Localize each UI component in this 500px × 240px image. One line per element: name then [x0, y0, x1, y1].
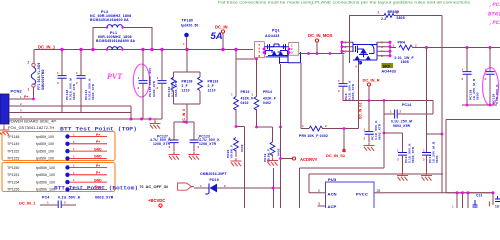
wire: rail drop to PC17 node: [426, 48, 428, 135]
svg-text:PVCC: PVCC: [356, 191, 368, 196]
capacitor PC17: [422, 134, 442, 173]
pin 3 ACP of PU3: [318, 202, 337, 209]
test point row TP1148: [7, 133, 107, 139]
mosfet PQ5 left pins: [341, 41, 354, 54]
wire: PF1 to PCN2 pin column: [33, 87, 35, 99]
svg-text:1U: 1U: [495, 205, 500, 209]
junction dot ACP drop: [383, 132, 386, 135]
capacitor PC6 on gate sense line: [338, 55, 348, 101]
junction dots right rail: [425, 46, 492, 49]
svg-text:5A: 5A: [211, 31, 223, 42]
test point TP180: [181, 19, 198, 50]
net label DC_IN_S1: [343, 149, 346, 152]
svg-text:1608: 1608: [401, 60, 409, 64]
svg-text:BT61: BT61: [488, 11, 500, 18]
svg-text:TP1153: TP1153: [7, 157, 19, 161]
net stub DC_IN: [215, 25, 228, 50]
capacitor PC14 horizontal: [384, 101, 433, 119]
svg-text:1210: 1210: [182, 89, 190, 93]
test point table box bottom: [2, 163, 115, 192]
PVT ellipse around PC135: [133, 64, 149, 97]
pin 2 ACN of PU3: [318, 189, 337, 196]
svg-text:SR5: SR5: [383, 64, 390, 68]
wire: PQ1 to PQ5 rail H2: [299, 53, 345, 55]
wire+ground under PR29: [231, 150, 242, 166]
svg-text:0402: 0402: [263, 101, 271, 105]
svg-text:0603_X7R: 0603_X7R: [91, 83, 95, 100]
junction dot PC17 tap on BR600 net: [441, 133, 444, 136]
svg-text:TP1151: TP1151: [7, 173, 19, 177]
svg-text:ACP: ACP: [328, 204, 337, 208]
test point row TP1149: [7, 140, 107, 146]
svg-text:0402: 0402: [241, 101, 249, 105]
wire: PQ5 gate riser to BR600: [349, 15, 351, 58]
capacitor PC4: [40, 201, 76, 209]
svg-text:CMB2054-30PT: CMB2054-30PT: [200, 172, 228, 176]
wire: BR600 net vertical drop at x=443: [441, 16, 443, 193]
svg-text:PU3: PU3: [328, 177, 337, 182]
junction dots gate dividers: [235, 125, 282, 128]
wire: PR14 branch vertical: [256, 59, 258, 97]
capacitor PC2: [384, 133, 407, 173]
svg-text:POWER BOARD SIDE_4P: POWER BOARD SIDE_4P: [8, 119, 56, 124]
ferrite bead loop right riser: [123, 28, 152, 50]
wire: PQ5 gate drop: [358, 62, 360, 129]
capacitor PC139: [485, 48, 495, 106]
ground under PC123: [189, 152, 200, 160]
svg-text:tpd50t_100: tpd50t_100: [36, 142, 54, 146]
test point row TP1154: [7, 178, 107, 184]
svg-text:0603_X7R: 0603_X7R: [95, 196, 114, 200]
capacitor PC138: [462, 48, 472, 106]
junction dots on H11: [368, 99, 386, 102]
svg-text:P+: P+: [24, 95, 29, 99]
wire: split to PC127 PC123: [174, 122, 194, 140]
svg-text:PR15: PR15: [241, 90, 250, 94]
net stub DC_IN_R: [363, 78, 380, 101]
test point row TP1153: [7, 154, 107, 160]
capacitor PC1: [364, 101, 374, 143]
svg-text:1206_X7R: 1206_X7R: [153, 142, 171, 146]
wire: outer AC route horizontal: [300, 168, 385, 208]
svg-text:0.1U_50V_K: 0.1U_50V_K: [495, 84, 499, 104]
resistor PR29: [234, 138, 239, 152]
svg-text:TP1152: TP1152: [7, 149, 19, 153]
svg-text:0402: 0402: [277, 148, 281, 156]
svg-text:DC_IN: DC_IN: [215, 25, 228, 30]
svg-text:2.2: 2.2: [381, 17, 386, 21]
wire: diode output row: [217, 187, 281, 189]
capacitor PC128: [57, 50, 67, 113]
junction on PCN2 column: [32, 98, 35, 101]
svg-text:P+: P+: [96, 133, 100, 137]
svg-text:2: 2: [318, 189, 320, 193]
wire: PR15 branch vertical: [235, 50, 237, 97]
svg-text:PR133: PR133: [208, 80, 219, 84]
svg-text:2: 2: [28, 61, 30, 65]
wire: caps bottom bus H5: [462, 104, 497, 106]
wire: ACP sense drop from PC14 tap: [383, 114, 385, 168]
svg-text:DC_IN_1: DC_IN_1: [19, 200, 36, 205]
resistor BR600: [384, 14, 394, 18]
ferrite bead loop left riser: [93, 28, 107, 50]
svg-text:432K_F: 432K_F: [263, 97, 276, 101]
ground under PC17: [421, 173, 432, 181]
pin 28 PVCC of PU3: [356, 189, 384, 196]
ground under PC127: [169, 152, 180, 160]
pin 4 of PCN2: [9, 118, 131, 120]
resistor PR138: [171, 77, 176, 91]
mosfet PQ5 right pins: [377, 41, 396, 59]
junction dots bottom-right stub row: [456, 191, 495, 194]
wire+ground under PR19: [267, 154, 278, 165]
svg-text:BTT Test Point (Bottom): BTT Test Point (Bottom): [54, 186, 138, 192]
svg-text:PR9 10K_F 0402: PR9 10K_F 0402: [299, 134, 328, 138]
diode PD19: [200, 184, 226, 195]
svg-text:0603: 0603: [476, 92, 480, 100]
wire: PQ1 gate row: [236, 58, 257, 60]
wire: PR14 bottom to junction: [257, 109, 274, 208]
resistor loop feed riser: [174, 50, 201, 125]
ground on H6: [150, 119, 161, 129]
wire: main DC_IN rail: [34, 49, 253, 51]
test point row TP1150: [7, 164, 107, 170]
svg-text:3: 3: [318, 202, 320, 206]
coil pin dots: [106, 26, 124, 50]
capacitor PC123: [190, 136, 200, 151]
wire: rail drop to fuse PF1: [33, 50, 35, 64]
wire: PQ1 drain sense drop: [301, 63, 309, 129]
test point row TP1151: [7, 171, 107, 177]
svg-text:DC_IN_1: DC_IN_1: [38, 44, 56, 49]
wire: AC_OFF to diode: [192, 187, 209, 188]
svg-text:tpd50b_100: tpd50b_100: [36, 173, 55, 177]
net stub DC_IN_MOS: [308, 33, 333, 54]
svg-text:0402: 0402: [240, 144, 244, 152]
svg-text:PD19: PD19: [210, 178, 219, 182]
resistor PR4: [399, 45, 413, 50]
connector PCN2 body: [0, 94, 9, 124]
svg-text:TP180: TP180: [182, 19, 194, 23]
svg-text:BCMS451616A600 8A: BCMS451616A600 8A: [96, 39, 135, 43]
svg-text:0603_X5R: 0603_X5R: [393, 124, 411, 128]
svg-text:PR4: PR4: [398, 41, 406, 45]
svg-text:AC_OFF_3#: AC_OFF_3#: [146, 184, 169, 189]
junction dot PR9 riser: [343, 127, 346, 130]
mosfet PQ5 pmos glyph: [353, 42, 377, 65]
svg-text:DC_IN_R: DC_IN_R: [363, 78, 380, 83]
svg-text:2: 2: [396, 11, 398, 15]
junction dots on H2 and pin boxes: [263, 48, 332, 55]
mosfet PQ1 left pin box: [255, 42, 265, 58]
wire: PR15 bottom to junction: [236, 109, 245, 208]
partial components at bottom edge: [452, 194, 500, 209]
wire: PVCC rail to right: [384, 192, 494, 194]
svg-text:PCN2: PCN2: [11, 89, 23, 94]
wire: right inner route H7: [446, 119, 500, 121]
svg-text:FOX_GS73041-18272-7H: FOX_GS73041-18272-7H: [8, 125, 54, 130]
svg-text:ACN: ACN: [328, 191, 337, 196]
svg-text:1: 1: [378, 11, 380, 15]
svg-text:DC_IN_MOS: DC_IN_MOS: [308, 33, 333, 38]
svg-text:PC4: PC4: [42, 196, 50, 200]
PVT ellipse around PC139: [483, 68, 499, 106]
svg-text:PVT: PVT: [107, 72, 123, 81]
ferrite bead PL3 coil: [107, 25, 123, 28]
mosfet PQ1 dual pmos glyph: [264, 44, 300, 64]
svg-text:0603_X7R: 0603_X7R: [174, 80, 178, 97]
wire: cap bottom bus H6: [131, 118, 162, 120]
sheet port AC_OFF_3#: [140, 183, 192, 190]
svg-text:0603_X7R: 0603_X7R: [378, 123, 382, 140]
svg-text:tpd50b_100: tpd50b_100: [36, 180, 55, 184]
svg-text:+BCVDC: +BCVDC: [148, 198, 165, 203]
junction dots on rail: [60, 48, 237, 51]
svg-text:PR138: PR138: [182, 80, 193, 84]
test point row TP1155: [7, 185, 107, 191]
IC PU3 box: [326, 182, 375, 212]
svg-text:TP1155: TP1155: [7, 188, 19, 192]
svg-text:SMU006TM0: SMU006TM0: [41, 69, 45, 90]
ground under PC2: [397, 173, 408, 181]
svg-text:BCM3451616A600 8A: BCM3451616A600 8A: [90, 18, 129, 22]
net stub ACDRV#: [279, 157, 318, 162]
wire: sense bus H11: [343, 100, 433, 102]
resistor PR133: [198, 77, 203, 91]
svg-text:AO4433: AO4433: [382, 69, 397, 73]
capacitor PC136: [157, 50, 167, 120]
svg-text:GND: GND: [94, 178, 102, 182]
test point table box top: [2, 132, 115, 161]
wire: stub drops at bottom right: [457, 193, 493, 208]
test point row TP1152: [7, 147, 107, 153]
svg-text:,PC31: ,PC31: [489, 1, 500, 8]
svg-text:0603_X7R: 0603_X7R: [351, 83, 355, 100]
svg-text:PC14: PC14: [402, 103, 411, 107]
resistor PR9: [309, 126, 323, 131]
highlight tag SR5: [382, 63, 394, 68]
svg-text:TP1149: TP1149: [7, 142, 19, 146]
svg-text:tpd50t_100: tpd50t_100: [36, 149, 54, 153]
pin 3 of PCN2: [9, 112, 131, 114]
ferrite bead PL1 coil on rail: [107, 47, 123, 50]
svg-text:PQ1: PQ1: [272, 29, 280, 33]
ground under PC1: [364, 143, 375, 151]
svg-text:2_F: 2_F: [208, 84, 214, 88]
svg-text:1: 1: [28, 88, 30, 92]
svg-text:0603: 0603: [435, 155, 439, 163]
svg-text:DC_IN_S1: DC_IN_S1: [326, 153, 346, 158]
junction dot diode row: [272, 187, 275, 190]
wire: PQ1 gate2 drop: [280, 64, 282, 208]
svg-text:P+: P+: [96, 164, 100, 168]
ground under PCN2: [0, 124, 10, 135]
svg-text:P+: P+: [96, 140, 100, 144]
svg-text:TP1150: TP1150: [7, 166, 19, 170]
svg-text:0805: 0805: [397, 16, 405, 20]
svg-text:C13: C13: [476, 194, 482, 198]
svg-text:GND: GND: [94, 147, 102, 151]
svg-text:0603_X7R: 0603_X7R: [72, 83, 76, 100]
svg-text:tpd50b_100: tpd50b_100: [36, 188, 55, 192]
svg-text:GND: GND: [94, 155, 102, 159]
junction dots on H6: [140, 118, 152, 121]
svg-text:,PC3: ,PC3: [489, 19, 500, 26]
svg-text:DC_IN_G1: DC_IN_G1: [359, 102, 363, 119]
pin 1 of PCN2: [9, 98, 34, 100]
wire: inner AC route horizontal: [309, 174, 443, 193]
svg-text:AO4433: AO4433: [265, 34, 280, 38]
svg-text:tpd420_50: tpd420_50: [181, 23, 198, 27]
svg-text:0603_X7R: 0603_X7R: [411, 146, 415, 163]
power flag +BCVDC: [148, 198, 165, 208]
mosfet PQ1 right pin box: [289, 43, 299, 56]
svg-text:tpd50t_100: tpd50t_100: [36, 157, 54, 161]
svg-text:1210: 1210: [208, 89, 216, 93]
svg-text:ACDRV#: ACDRV#: [300, 157, 318, 162]
svg-text:tpd50t_100: tpd50t_100: [36, 135, 54, 139]
wire: right route corner to bottom stub row: [446, 120, 493, 193]
svg-text:0402_X7R: 0402_X7R: [152, 80, 156, 97]
svg-text:28: 28: [377, 189, 381, 193]
junction dot gate row: [255, 58, 258, 61]
svg-text:2_F: 2_F: [182, 84, 188, 88]
svg-text:P+: P+: [96, 171, 100, 175]
svg-text:0.1U_50V_K: 0.1U_50V_K: [58, 196, 81, 200]
junction dots on H5: [466, 104, 492, 107]
wire: BR600 top run to right drop: [350, 15, 443, 17]
svg-text:PR14: PR14: [263, 90, 272, 94]
capacitor PC134: [76, 50, 86, 113]
wire: PR9 to riser: [322, 129, 359, 153]
svg-text:Fat trace connections must be: Fat trace connections must be made using…: [218, 0, 470, 4]
pin 2 of PCN2: [9, 105, 131, 107]
wire: charger input rail right: [413, 47, 500, 49]
capacitor PC127: [169, 136, 179, 151]
svg-text:TP1148: TP1148: [7, 135, 19, 139]
resistor PR19: [270, 142, 275, 156]
svg-text:432K_F: 432K_F: [241, 97, 254, 101]
fuse PF1: [28, 61, 36, 92]
wire: BR600 riser into PQ5: [349, 16, 351, 64]
svg-text:TP1154: TP1154: [7, 180, 19, 184]
svg-text:tpd50b_100: tpd50b_100: [36, 166, 55, 170]
svg-text:1206_X7R: 1206_X7R: [199, 142, 217, 146]
svg-text:70: 70: [140, 185, 144, 189]
svg-text:69.8K_F: 69.8K_F: [230, 145, 234, 158]
capacitor PC135: [138, 50, 148, 120]
